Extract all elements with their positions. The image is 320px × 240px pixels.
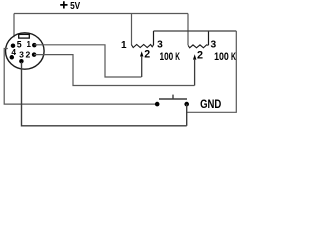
pin 5 <box>11 43 16 48</box>
svg-text:100: 100 <box>214 51 229 63</box>
wire from +5V rail down to connector shell <box>13 14 15 38</box>
pin 2 <box>32 52 37 57</box>
pin 4 <box>10 55 15 60</box>
R1 terminal 3 label <box>157 40 163 51</box>
svg-text:5V: 5V <box>70 1 80 12</box>
pin 5 label <box>17 40 22 50</box>
svg-text:1: 1 <box>27 40 32 49</box>
potentiometer R2 100K <box>188 14 209 48</box>
wire rail joining R1 pin3 and R2 pin3 to GND drop <box>154 30 237 32</box>
svg-text:5: 5 <box>17 40 22 50</box>
label +5V <box>60 1 80 12</box>
svg-text:GND: GND <box>200 97 221 111</box>
pin 2 label <box>26 50 31 60</box>
svg-text:2: 2 <box>144 48 150 60</box>
R1 wiper arrow (terminal 2) <box>140 51 143 77</box>
svg-text:4: 4 <box>11 47 16 57</box>
label GND <box>200 97 221 111</box>
wire +5V top rail <box>14 13 188 15</box>
svg-text:100: 100 <box>160 51 174 63</box>
R1 value label 100K <box>160 51 180 63</box>
pin 1 label <box>27 40 32 49</box>
svg-text:K: K <box>175 51 180 63</box>
wire pin2 to R2 wiper <box>34 55 194 86</box>
connector key notch <box>19 34 30 38</box>
R2 wiper arrow (terminal 2) <box>193 54 196 85</box>
svg-text:K: K <box>231 51 236 63</box>
svg-text:2: 2 <box>197 49 203 61</box>
wire switch right contact down to bottom run <box>186 104 188 126</box>
svg-text:3: 3 <box>19 49 24 59</box>
pin 1 <box>32 43 37 48</box>
svg-text:2: 2 <box>26 50 31 60</box>
wire pin1 to R1 wiper <box>34 45 141 77</box>
switch S1 pushbutton <box>155 95 189 107</box>
potentiometer R1 100K <box>132 14 154 48</box>
pin 4 label <box>11 47 16 57</box>
R2 terminal 3 label <box>210 40 216 51</box>
R2 value label 100K <box>214 51 236 63</box>
svg-text:3: 3 <box>210 40 216 51</box>
pin 3 <box>19 59 24 64</box>
svg-text:1: 1 <box>121 40 127 51</box>
wire pin4 to switch left contact <box>4 49 155 105</box>
connector J1 DIN-5 shell <box>6 33 45 69</box>
wire pin3 to bottom ground run <box>22 62 187 126</box>
R2 terminal 2 label <box>197 49 203 61</box>
pin 3 label <box>19 49 24 59</box>
R1 terminal 1 label <box>121 40 127 51</box>
wire right side down to GND node <box>187 31 237 112</box>
svg-text:3: 3 <box>157 40 163 51</box>
R1 terminal 2 label <box>144 48 150 60</box>
